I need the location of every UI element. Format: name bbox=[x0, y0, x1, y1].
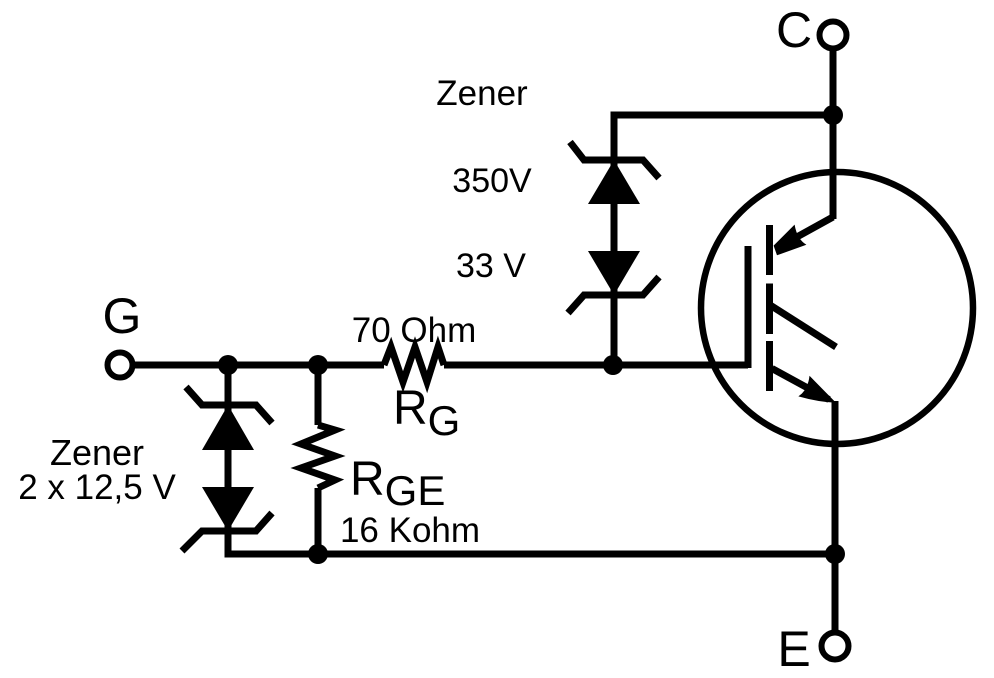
svg-text:Zener: Zener bbox=[436, 74, 528, 113]
label Zener left bbox=[50, 432, 144, 473]
terminal G bbox=[108, 353, 133, 378]
svg-text:2 x 12,5 V: 2 x 12,5 V bbox=[18, 468, 176, 507]
node bottom junction right bbox=[825, 544, 845, 564]
label C bbox=[776, 2, 812, 58]
svg-text:RG: RG bbox=[393, 382, 460, 444]
svg-text:G: G bbox=[103, 288, 142, 344]
transistor Q1 channel dash 2 bbox=[766, 284, 773, 335]
node collector junction bbox=[823, 105, 843, 125]
label E bbox=[777, 621, 810, 677]
transistor Q1 channel dash 3 bbox=[766, 341, 773, 391]
label 70 Ohm bbox=[352, 311, 477, 350]
wire gate right bbox=[444, 362, 748, 369]
resistor RGE wire top bbox=[315, 365, 322, 425]
transistor Q1 IGBT circle bbox=[701, 172, 973, 444]
label G bbox=[103, 288, 142, 344]
svg-text:350V: 350V bbox=[452, 162, 532, 200]
zener D1 350V bbox=[570, 142, 659, 204]
label RGE bbox=[350, 453, 445, 514]
svg-text:C: C bbox=[776, 2, 812, 58]
wire left zener stack vertical bbox=[228, 365, 835, 554]
svg-text:RGE: RGE bbox=[350, 453, 445, 514]
resistor RGE zigzag bbox=[301, 425, 335, 488]
label 33 V bbox=[456, 247, 526, 285]
transistor Q1 collector lead bbox=[779, 217, 833, 247]
terminal E bbox=[822, 633, 849, 660]
resistor RGE wire bottom bbox=[315, 488, 322, 554]
node bottom junction left bbox=[308, 544, 328, 564]
transistor Q1 emitter arrowhead bbox=[798, 376, 836, 403]
wire top horizontal and zener stack vertical bbox=[614, 115, 833, 365]
transistor Q1 emitter lead bbox=[772, 369, 829, 400]
transistor Q1 collector arrowhead bbox=[774, 225, 807, 256]
node gate junction 2 bbox=[308, 355, 328, 375]
svg-text:16 Kohm: 16 Kohm bbox=[340, 511, 480, 550]
svg-text:33 V: 33 V bbox=[456, 247, 526, 285]
zener D2 33V bbox=[568, 251, 659, 313]
transistor Q1 gate bar bbox=[745, 246, 752, 368]
zener D3 12,5V bbox=[186, 387, 272, 450]
terminal C bbox=[820, 22, 847, 49]
transistor Q1 channel dash 1 bbox=[766, 225, 773, 275]
label RG bbox=[393, 382, 460, 444]
label 16 Kohm bbox=[340, 511, 480, 550]
wire collector vertical bbox=[830, 48, 837, 219]
resistor RG 70 Ohm bbox=[384, 347, 444, 382]
transistor Q1 body contact diagonal bbox=[770, 305, 836, 347]
label 2 x 12,5 V bbox=[18, 468, 176, 507]
label Zener bbox=[436, 74, 528, 113]
svg-text:E: E bbox=[777, 621, 810, 677]
node zener-gate junction bbox=[603, 355, 623, 375]
wire emitter vertical bbox=[832, 401, 839, 633]
label 350V bbox=[452, 162, 532, 200]
zener D4 12,5V bbox=[182, 487, 272, 551]
wire gate left bbox=[133, 362, 384, 369]
node gate junction 1 bbox=[218, 355, 238, 375]
svg-text:Zener: Zener bbox=[50, 432, 144, 473]
svg-text:70 Ohm: 70 Ohm bbox=[352, 311, 477, 350]
